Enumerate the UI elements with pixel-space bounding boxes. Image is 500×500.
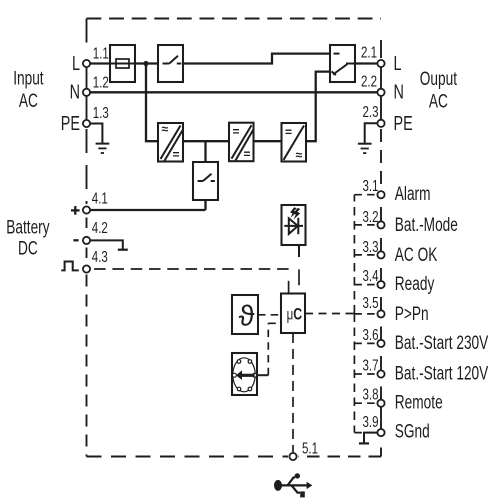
svg-text:PE: PE bbox=[394, 112, 413, 135]
svg-text:Bat.-Start 230V: Bat.-Start 230V bbox=[395, 332, 488, 354]
svg-text:2.3: 2.3 bbox=[362, 102, 378, 120]
svg-text:3.1: 3.1 bbox=[362, 176, 378, 194]
svg-text:Bat.-Mode: Bat.-Mode bbox=[395, 214, 458, 236]
svg-text:=: = bbox=[285, 125, 292, 139]
svg-text:ϑ: ϑ bbox=[239, 301, 255, 333]
svg-text:AC OK: AC OK bbox=[395, 244, 438, 266]
svg-text:Input: Input bbox=[13, 67, 44, 89]
svg-text:3.9: 3.9 bbox=[362, 412, 378, 430]
svg-text:3.5: 3.5 bbox=[362, 293, 378, 311]
svg-text:2.2: 2.2 bbox=[361, 72, 377, 90]
svg-text:=: = bbox=[173, 148, 180, 162]
svg-text:Remote: Remote bbox=[395, 391, 443, 413]
svg-text:4.2: 4.2 bbox=[92, 218, 108, 236]
svg-text:PE: PE bbox=[61, 112, 80, 135]
svg-text:≈: ≈ bbox=[296, 148, 303, 162]
svg-text:AC: AC bbox=[19, 90, 38, 112]
svg-text:≈: ≈ bbox=[162, 122, 169, 136]
svg-text:P>Pn: P>Pn bbox=[395, 303, 429, 325]
svg-text:3.4: 3.4 bbox=[362, 266, 378, 284]
svg-text:=: = bbox=[233, 125, 240, 139]
svg-text:AC: AC bbox=[429, 90, 448, 112]
svg-text:4.3: 4.3 bbox=[92, 247, 108, 265]
svg-text:N: N bbox=[70, 80, 80, 103]
svg-text:1.2: 1.2 bbox=[93, 73, 109, 91]
svg-text:5.1: 5.1 bbox=[302, 438, 318, 456]
svg-text:μC: μC bbox=[287, 304, 303, 324]
svg-text:Ready: Ready bbox=[395, 273, 435, 295]
svg-text:L: L bbox=[394, 52, 402, 75]
svg-text:1.1: 1.1 bbox=[93, 44, 109, 62]
svg-text:4.1: 4.1 bbox=[92, 189, 108, 207]
svg-text:2.1: 2.1 bbox=[361, 43, 377, 61]
svg-text:Ouput: Ouput bbox=[420, 68, 458, 90]
svg-text:Bat.-Start 120V: Bat.-Start 120V bbox=[395, 362, 488, 384]
svg-text:N: N bbox=[394, 80, 404, 103]
svg-text:3.3: 3.3 bbox=[362, 237, 378, 255]
svg-text:3.8: 3.8 bbox=[362, 385, 378, 403]
svg-text:Battery: Battery bbox=[6, 216, 50, 238]
svg-text:1.3: 1.3 bbox=[93, 103, 109, 121]
svg-text:Alarm: Alarm bbox=[395, 183, 431, 205]
svg-text:3.7: 3.7 bbox=[362, 356, 378, 374]
svg-text:=: = bbox=[244, 147, 251, 161]
svg-text:3.6: 3.6 bbox=[362, 325, 378, 343]
svg-text:L: L bbox=[72, 52, 80, 75]
svg-text:DC: DC bbox=[18, 237, 38, 259]
svg-text:3.2: 3.2 bbox=[362, 207, 378, 225]
svg-text:SGnd: SGnd bbox=[395, 420, 430, 442]
